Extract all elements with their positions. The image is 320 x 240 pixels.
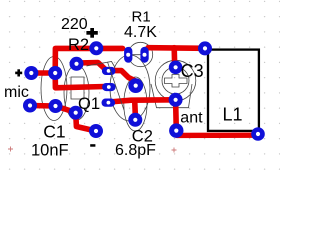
wire K down to L (173, 100, 179, 131)
trimmer C3 inner circle (162, 67, 189, 94)
capacitor C1 inner rect (71, 77, 84, 99)
svg-text:4.7K: 4.7K (124, 24, 157, 41)
pad J trimmer C3 top (169, 61, 183, 75)
wire Q1 pin3 to K with tap to C2 bottom (109, 100, 176, 102)
marker cross left (8, 147, 13, 152)
pad M capacitor C2 bottom (128, 113, 142, 127)
svg-text:6.8pF: 6.8pF (115, 142, 156, 159)
pad R near minus (89, 124, 103, 138)
svg-text:ant: ant (180, 110, 203, 127)
transistor Q1 lead hairlines (108, 62, 125, 110)
svg-text:mic: mic (4, 84, 29, 101)
svg-text:R2: R2 (68, 36, 89, 54)
wire C to G (77, 63, 107, 71)
resistor R1 body outline (128, 42, 152, 66)
label minus (90, 144, 95, 147)
resistor R1 pad link line (128, 54, 144, 56)
wire LB down to C1 pad P (56, 106, 96, 131)
capacitor C2 body outline (124, 77, 147, 131)
pad LA battery (23, 99, 37, 113)
trimmer C3 skirt trapezoid (151, 84, 192, 108)
wire B up and right to D and E (55, 48, 122, 73)
pad N coil L1 top (198, 41, 212, 55)
svg-text:C1: C1 (43, 121, 65, 141)
pad H transistor Q1 pin2 oval (102, 83, 116, 91)
svg-text:10nF: 10nF (31, 141, 69, 159)
wire lower pair LA to LB (30, 103, 56, 109)
grid dots (9, 1, 280, 170)
wire F right to N with tap to C3 top (148, 45, 205, 51)
wire tap down to C3 top pad J (171, 48, 177, 63)
marker cross right (172, 148, 177, 153)
pad G transistor Q1 pin1 oval (102, 67, 116, 75)
svg-text:Q1: Q1 (78, 95, 100, 113)
pad D resistor R2 (89, 41, 103, 55)
pad B mic (48, 66, 62, 80)
svg-text:R1: R1 (132, 8, 151, 25)
transistor Q1 body outline (110, 55, 150, 121)
trimmer C3 cross slot (165, 75, 188, 88)
pad I capacitor C2 top (128, 78, 143, 93)
wire tap down to C2 bottom pad M (132, 100, 138, 115)
pad E resistor R1 left oval (124, 47, 132, 63)
pad A mic+ (24, 66, 38, 80)
pad P capacitor C1 bottom (69, 106, 83, 120)
wire L right to O antenna/coil bottom (177, 132, 258, 138)
pad L antenna node (169, 123, 183, 137)
pad LB battery (49, 99, 63, 113)
capacitor C1 body outline (64, 65, 89, 120)
trimmer C3 outer circle (155, 60, 196, 101)
resistor R2 body outline line over trace (87, 62, 116, 68)
pad F resistor R1 right oval (140, 47, 148, 63)
pad O coil L1 bottom (251, 127, 265, 141)
mic body outline (41, 57, 67, 121)
wire G to I (109, 71, 135, 81)
svg-text:L1: L1 (223, 105, 243, 125)
inductor L1 coil rectangle (208, 50, 259, 131)
label plus battery (86, 28, 97, 38)
svg-text:C3: C3 (181, 61, 204, 81)
pad K trimmer C3 bottom (169, 93, 183, 107)
pad Q1 pin3 oval (102, 99, 116, 107)
wire B down to Q1 pad H (55, 73, 105, 88)
wire mic+ A to B (31, 70, 55, 76)
label plus mic (15, 69, 22, 76)
pad C capacitor C1 top (70, 57, 84, 71)
svg-text:220: 220 (61, 16, 88, 33)
